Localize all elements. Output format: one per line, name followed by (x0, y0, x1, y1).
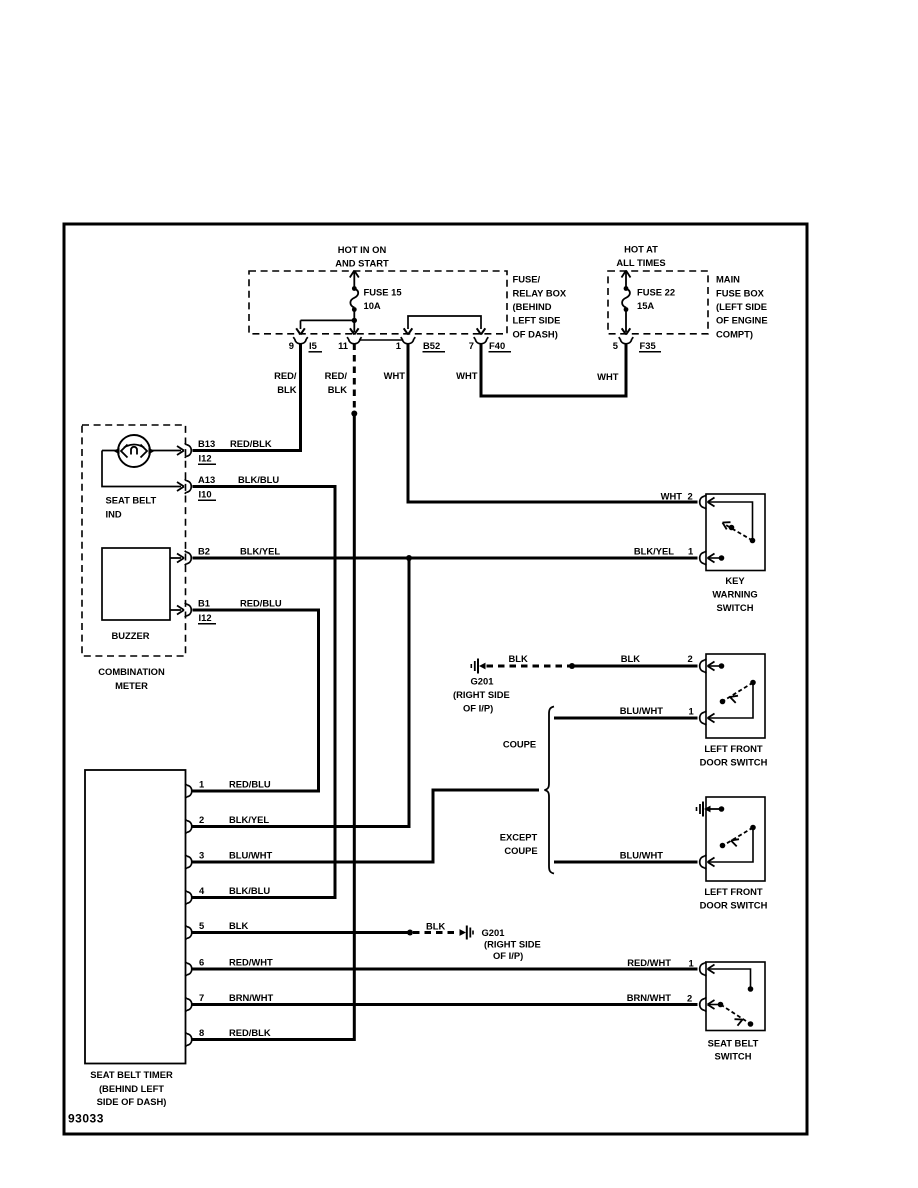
svg-text:RELAY BOX: RELAY BOX (513, 288, 567, 299)
wire BLU/WHT (coupe) to door switch pin 1 (554, 717, 698, 720)
svg-text:B1: B1 (198, 598, 210, 609)
svg-text:OF ENGINE: OF ENGINE (716, 315, 768, 326)
svg-text:COUPE: COUPE (503, 739, 536, 750)
svg-text:BLK: BLK (277, 384, 296, 395)
connector A13 I10 (185, 479, 192, 494)
svg-text:METER: METER (115, 680, 148, 691)
svg-text:MAIN: MAIN (716, 274, 740, 285)
seat belt indicator lamp (118, 435, 150, 467)
svg-text:F35: F35 (640, 340, 656, 351)
svg-text:B2: B2 (198, 546, 210, 557)
connector pin 1 B52 (401, 337, 416, 344)
svg-text:2: 2 (687, 993, 692, 1004)
svg-text:BLK: BLK (509, 653, 528, 664)
wire BLU/WHT (except coupe) to door switch 2 (554, 861, 698, 864)
connector strip line between pin 11 and pin 1 (359, 339, 402, 341)
svg-text:LEFT FRONT: LEFT FRONT (704, 886, 763, 897)
svg-text:5: 5 (199, 920, 204, 931)
connector B13 I12 (185, 443, 192, 458)
svg-text:COMBINATION: COMBINATION (98, 666, 165, 677)
ground G201 (lower) (460, 929, 467, 936)
timer pin 4 (185, 890, 192, 905)
svg-text:WARNING: WARNING (712, 589, 757, 600)
svg-text:G201: G201 (471, 676, 494, 687)
svg-text:BLK/YEL: BLK/YEL (240, 546, 280, 557)
wire BLK dashed from G201 (487, 665, 571, 668)
svg-text:RED/BLK: RED/BLK (229, 1027, 271, 1038)
connector B2 (185, 551, 192, 566)
connector pin 7 F40 (474, 337, 489, 344)
seat belt switch box (706, 962, 765, 1031)
connector pin 9 I5 (293, 337, 308, 344)
svg-text:I5: I5 (309, 340, 317, 351)
svg-text:SIDE OF DASH): SIDE OF DASH) (97, 1096, 167, 1107)
svg-text:BRN/WHT: BRN/WHT (627, 992, 672, 1003)
svg-text:1: 1 (688, 546, 693, 557)
svg-text:WHT: WHT (456, 370, 478, 381)
ground G201 (upper) (471, 659, 478, 674)
svg-text:SWITCH: SWITCH (717, 602, 754, 613)
timer pin 8 (185, 1032, 192, 1047)
svg-text:HOT AT: HOT AT (624, 244, 658, 255)
svg-text:BLK/YEL: BLK/YEL (634, 546, 674, 557)
svg-text:LEFT FRONT: LEFT FRONT (704, 743, 763, 754)
svg-text:BLK: BLK (426, 921, 445, 932)
connector pin 5 F35 (619, 337, 634, 344)
svg-text:OF I/P): OF I/P) (493, 950, 523, 961)
svg-text:BLK: BLK (621, 653, 640, 664)
svg-text:FUSE 22: FUSE 22 (637, 287, 675, 298)
svg-text:RED/BLU: RED/BLU (229, 779, 271, 790)
svg-text:3: 3 (199, 850, 204, 861)
svg-text:(BEHIND: (BEHIND (513, 301, 552, 312)
svg-text:5: 5 (613, 340, 618, 351)
case ground at door switch 2 (697, 802, 704, 817)
svg-text:OF DASH): OF DASH) (513, 329, 558, 340)
svg-text:BLK: BLK (229, 920, 248, 931)
wire RED/BLK dashed from pin 11 (353, 344, 356, 409)
svg-text:11: 11 (338, 340, 348, 351)
wire BLK/YEL branch to timer pin 2 (193, 558, 410, 827)
svg-text:IND: IND (106, 509, 122, 520)
svg-text:BUZZER: BUZZER (112, 630, 150, 641)
brace (545, 707, 555, 874)
wire RED/BLK down to timer pin 8 (193, 414, 355, 1040)
svg-text:6: 6 (199, 957, 204, 968)
svg-text:LEFT SIDE: LEFT SIDE (513, 315, 561, 326)
timer pin 7 (185, 997, 192, 1012)
timer pin 3 (185, 855, 192, 870)
timer pin 2 (185, 819, 192, 834)
timer pin 5 (185, 925, 192, 940)
svg-text:HOT IN ON: HOT IN ON (338, 244, 387, 255)
svg-text:DOOR SWITCH: DOOR SWITCH (700, 900, 768, 911)
svg-text:WHT: WHT (597, 371, 619, 382)
svg-text:RED/WHT: RED/WHT (229, 957, 273, 968)
svg-text:G201: G201 (482, 927, 505, 938)
svg-text:BRN/WHT: BRN/WHT (229, 992, 274, 1003)
key warning switch internals (708, 502, 753, 541)
svg-text:93033: 93033 (68, 1112, 104, 1126)
svg-text:RED/: RED/ (325, 370, 348, 381)
svg-text:B13: B13 (198, 438, 215, 449)
wire BLK to door switch pin 2 (572, 665, 698, 668)
svg-text:7: 7 (469, 340, 474, 351)
svg-text:OF I/P): OF I/P) (463, 703, 493, 714)
svg-text:BLU/WHT: BLU/WHT (229, 850, 272, 861)
svg-text:1: 1 (199, 779, 204, 790)
svg-text:1: 1 (689, 958, 694, 969)
svg-text:I12: I12 (199, 612, 212, 623)
connector B1 I12 (185, 603, 192, 618)
svg-text:1: 1 (689, 706, 694, 717)
svg-text:2: 2 (688, 491, 693, 502)
junction dot (569, 663, 575, 669)
svg-text:A13: A13 (198, 474, 215, 485)
svg-text:SWITCH: SWITCH (715, 1051, 752, 1062)
svg-text:FUSE/: FUSE/ (513, 274, 541, 285)
svg-text:BLK: BLK (328, 384, 347, 395)
junction dot on BLK/YEL (406, 555, 412, 561)
svg-text:2: 2 (199, 814, 204, 825)
svg-text:WHT: WHT (384, 370, 406, 381)
svg-text:(RIGHT SIDE: (RIGHT SIDE (453, 689, 510, 700)
door switch 2 internals (708, 829, 754, 862)
svg-text:RED/BLK: RED/BLK (230, 438, 272, 449)
svg-text:KEY: KEY (725, 575, 745, 586)
key warning switch connectors (700, 495, 707, 510)
svg-text:(LEFT SIDE: (LEFT SIDE (716, 301, 767, 312)
svg-text:RED/BLU: RED/BLU (240, 598, 282, 609)
junction dot (351, 411, 357, 417)
svg-text:1: 1 (396, 340, 401, 351)
wire BLK/YEL from B2 to key warning switch pin 1 (193, 557, 698, 560)
wire BLU/WHT from timer pin 3 to brace (193, 790, 540, 862)
svg-text:BLU/WHT: BLU/WHT (620, 850, 663, 861)
fuse/relay box internal wiring to pins 9 and 11 (352, 318, 357, 323)
wire RED/BLU from B1 to timer pin 1 (193, 610, 319, 791)
combination meter box (dashed) (82, 425, 186, 656)
fuse/relay box (dashed) (249, 271, 507, 334)
main fuse box (dashed) (608, 271, 708, 334)
svg-text:15A: 15A (637, 300, 654, 311)
wire RED/BLK from pin 9 to B13 (193, 344, 301, 451)
wire RED/WHT from timer pin 6 to seat belt switch pin 1 (193, 968, 698, 971)
key warning switch box (706, 494, 765, 571)
svg-text:BLK/BLU: BLK/BLU (238, 474, 279, 485)
left front door switch box (coupe) (706, 654, 765, 738)
wire BRN/WHT from timer pin 7 to seat belt switch pin 2 (193, 1003, 698, 1006)
buzzer box (102, 548, 170, 620)
svg-text:BLU/WHT: BLU/WHT (620, 705, 663, 716)
door switch internals (708, 665, 721, 667)
svg-text:I12: I12 (199, 453, 212, 464)
svg-text:WHT: WHT (661, 491, 683, 502)
wire BLK/BLU from A13 to timer pin 4 (193, 487, 336, 898)
timer pin 6 (185, 962, 192, 977)
svg-text:SEAT BELT TIMER: SEAT BELT TIMER (90, 1069, 173, 1080)
wire WHT from F40 to F35 (481, 344, 626, 397)
fuse/relay box internal link pin 1 to pin 7 (408, 316, 481, 329)
svg-text:RED/: RED/ (274, 370, 297, 381)
connector pin 11 (347, 337, 362, 344)
svg-text:10A: 10A (364, 300, 381, 311)
svg-text:BLK/BLU: BLK/BLU (229, 885, 270, 896)
svg-text:SEAT BELT: SEAT BELT (708, 1038, 759, 1049)
svg-text:I10: I10 (199, 489, 212, 500)
wire WHT from B52 to key warning switch (408, 344, 698, 503)
seat belt timer box (85, 770, 186, 1064)
svg-text:EXCEPT: EXCEPT (500, 832, 538, 843)
svg-text:BLK/YEL: BLK/YEL (229, 814, 269, 825)
fuse F1 (FUSE 15 10A) (350, 272, 358, 333)
svg-text:FUSE BOX: FUSE BOX (716, 288, 765, 299)
svg-text:7: 7 (199, 992, 204, 1003)
left front door switch box (except coupe) (706, 797, 765, 881)
svg-text:(BEHIND LEFT: (BEHIND LEFT (99, 1083, 164, 1094)
buzzer wiring to connectors (170, 558, 181, 610)
svg-text:FUSE 15: FUSE 15 (364, 287, 402, 298)
svg-text:AND START: AND START (335, 258, 389, 269)
svg-text:ALL TIMES: ALL TIMES (616, 257, 665, 268)
svg-text:F40: F40 (489, 340, 505, 351)
svg-text:2: 2 (688, 653, 693, 664)
timer pin 1 (185, 784, 192, 799)
svg-text:DOOR SWITCH: DOOR SWITCH (700, 757, 768, 768)
svg-text:(RIGHT SIDE: (RIGHT SIDE (484, 939, 541, 950)
svg-text:SEAT BELT: SEAT BELT (106, 495, 157, 506)
svg-text:4: 4 (199, 885, 205, 896)
seat belt switch internals (708, 969, 751, 987)
wire BLK from timer pin 5 (193, 931, 411, 934)
svg-text:B52: B52 (423, 340, 440, 351)
svg-text:8: 8 (199, 1027, 204, 1038)
border frame (64, 224, 807, 1134)
svg-text:COMPT): COMPT) (716, 329, 753, 340)
svg-text:RED/WHT: RED/WHT (627, 957, 671, 968)
fuse F2 (FUSE 22 15A) (622, 272, 630, 333)
lamp wiring inside meter (102, 451, 181, 487)
svg-text:9: 9 (289, 340, 294, 351)
svg-text:COUPE: COUPE (504, 845, 537, 856)
